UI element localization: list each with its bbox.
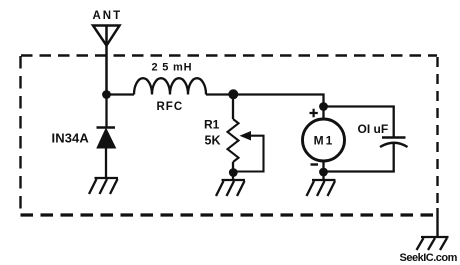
svg-text:IN34A: IN34A: [52, 131, 90, 146]
svg-text:OI uF: OI uF: [358, 122, 389, 136]
svg-text:2 5 mH: 2 5 mH: [152, 62, 193, 74]
svg-text:SeekIC.com: SeekIC.com: [400, 252, 458, 264]
svg-text:ANT: ANT: [93, 10, 123, 22]
svg-text:M1: M1: [314, 134, 335, 148]
svg-text:RFC: RFC: [157, 101, 184, 113]
svg-text:R1: R1: [204, 118, 220, 132]
svg-text:5K: 5K: [205, 134, 221, 148]
